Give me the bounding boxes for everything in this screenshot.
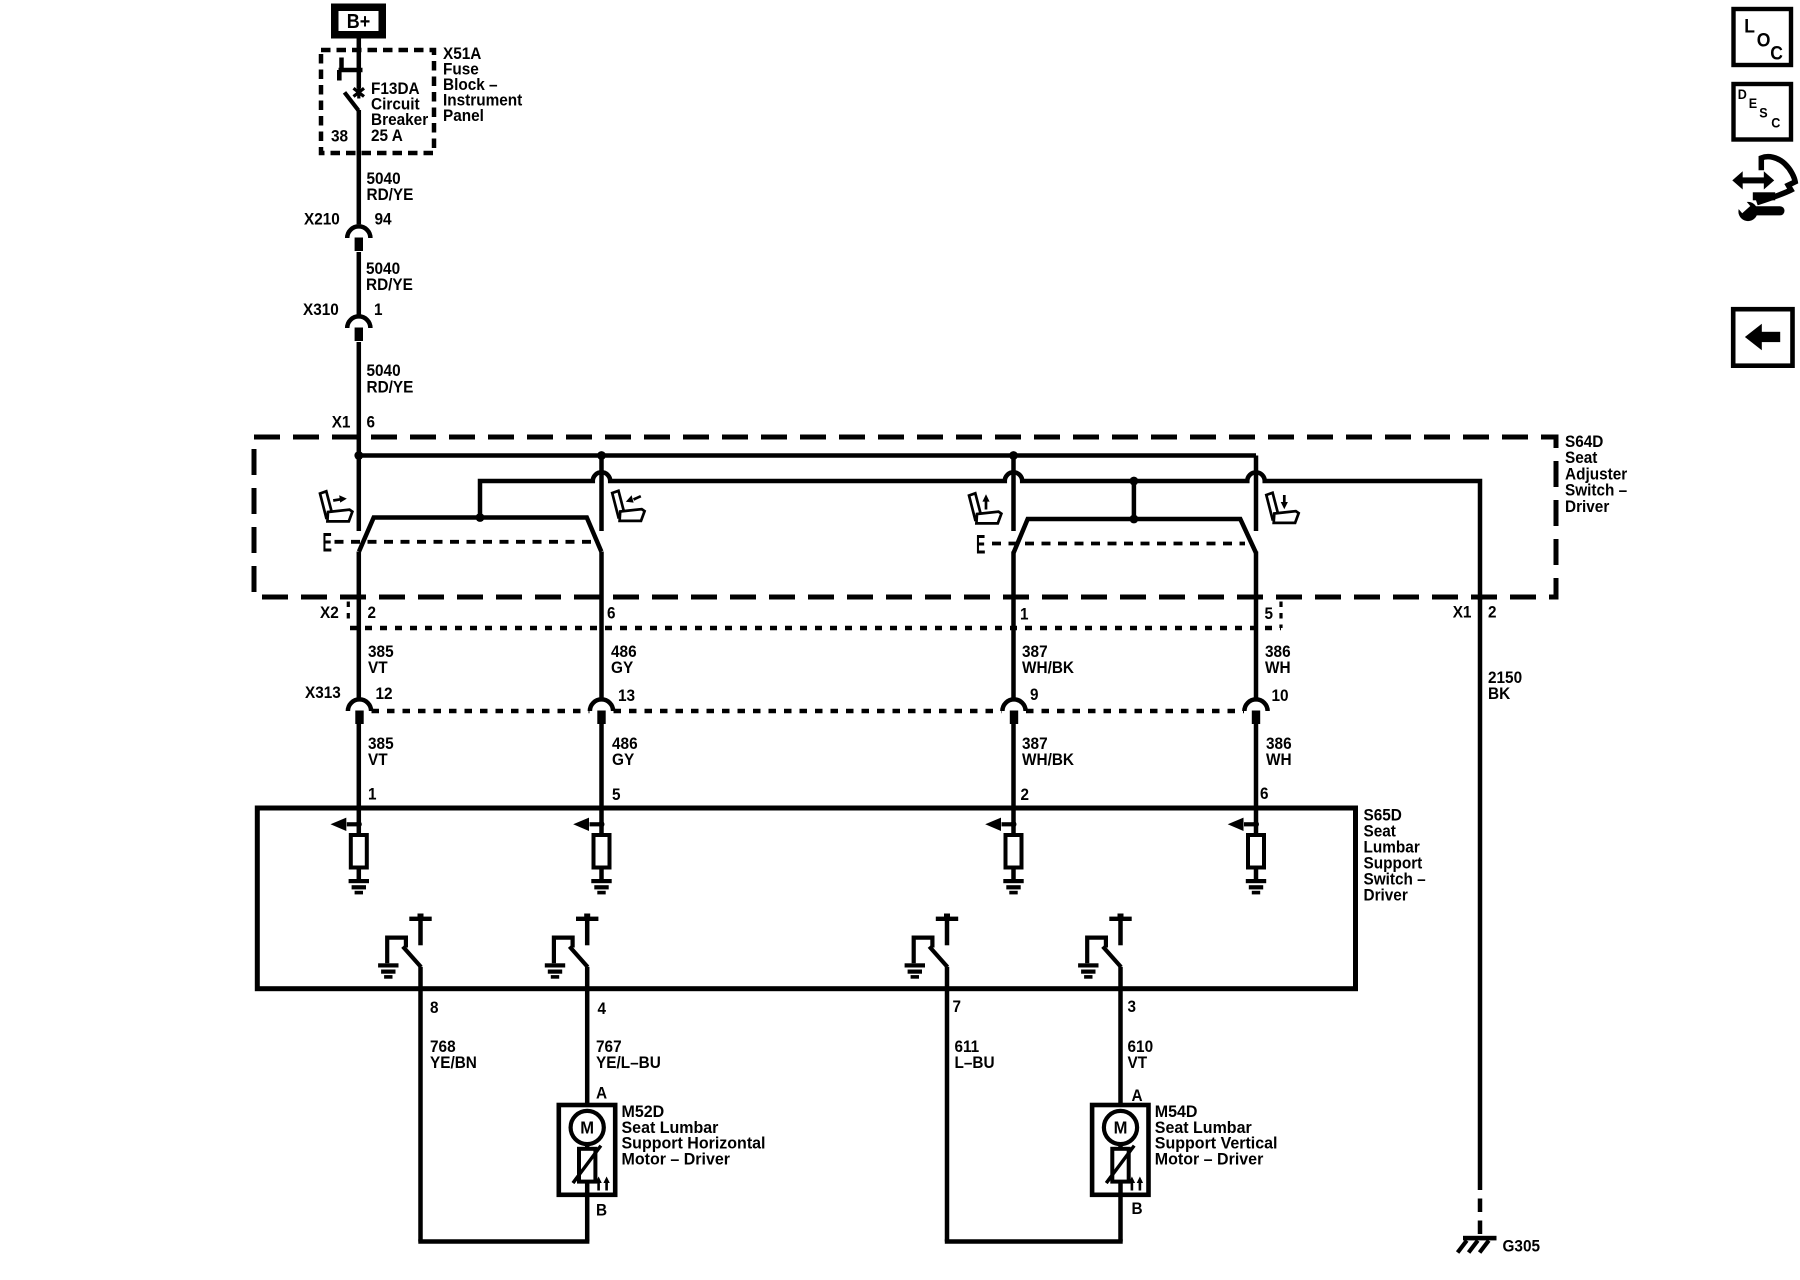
svg-text:6: 6 bbox=[367, 413, 376, 431]
svg-text:25 A: 25 A bbox=[371, 127, 403, 145]
in-line connector X313 pin 12 bbox=[348, 699, 371, 711]
battery B+ box bbox=[331, 4, 386, 39]
LOC button bbox=[1734, 9, 1792, 65]
svg-text:Motor – Driver: Motor – Driver bbox=[622, 1151, 731, 1169]
svg-text:3: 3 bbox=[1128, 998, 1137, 1016]
wire ground bus inside S64D (hops over verticals) bbox=[480, 472, 1480, 600]
svg-text:GY: GY bbox=[611, 659, 633, 677]
DESC button bbox=[1734, 84, 1792, 140]
in-line connector X313 pin 9 bbox=[1002, 699, 1025, 711]
potentiometer feedback branch 4 bbox=[1244, 822, 1256, 826]
svg-text:4: 4 bbox=[598, 1000, 607, 1018]
svg-text:6: 6 bbox=[607, 604, 616, 622]
svg-text:X2: X2 bbox=[320, 604, 339, 622]
svg-text:94: 94 bbox=[375, 210, 393, 228]
wire pin 7 down bbox=[945, 989, 950, 1242]
svg-text:2: 2 bbox=[1021, 786, 1030, 804]
svg-text:1: 1 bbox=[374, 301, 383, 319]
momentary switch 1 in S65D bbox=[418, 914, 424, 918]
wire M54D B down bbox=[1118, 1195, 1123, 1242]
resistor branch 2 bbox=[594, 835, 610, 868]
svg-text:M: M bbox=[1114, 1118, 1128, 1138]
wire switch 4 input bbox=[1254, 456, 1259, 532]
svg-text:YE/BN: YE/BN bbox=[430, 1054, 477, 1072]
fuse block X51A dashed box bbox=[321, 50, 434, 153]
svg-text:1: 1 bbox=[368, 785, 377, 803]
svg-text:1: 1 bbox=[1020, 605, 1029, 623]
junction bbox=[597, 451, 606, 460]
svg-text:A: A bbox=[596, 1084, 607, 1102]
ground switch 3 bbox=[905, 963, 925, 967]
svg-text:X1: X1 bbox=[332, 413, 351, 431]
potentiometer feedback branch 2 bbox=[590, 822, 602, 826]
svg-text:WH: WH bbox=[1266, 751, 1292, 769]
back navigation button bbox=[1733, 309, 1792, 366]
svg-text:GY: GY bbox=[612, 751, 634, 769]
wire return loop left bbox=[418, 1239, 589, 1244]
svg-text:38: 38 bbox=[331, 127, 348, 145]
svg-text:L–BU: L–BU bbox=[955, 1054, 995, 1072]
svg-text:Switch –: Switch – bbox=[1565, 482, 1627, 500]
motor M52D Seat Lumbar Support Horizontal bbox=[559, 1105, 615, 1195]
svg-text:WH/BK: WH/BK bbox=[1022, 659, 1074, 677]
circuit breaker F13DA bbox=[339, 68, 363, 73]
svg-text:9: 9 bbox=[1030, 686, 1039, 704]
seat icon switch 3 (lumbar up) bbox=[969, 493, 1001, 523]
wire pin13 to S65D pin5 bbox=[599, 724, 604, 835]
junction bus 2 bbox=[1130, 477, 1139, 486]
svg-text:S: S bbox=[1759, 105, 1767, 121]
wrench bbox=[1738, 202, 1757, 221]
wire B+ to circuit breaker bbox=[357, 39, 362, 69]
S65D Seat Lumbar Support Switch box bbox=[257, 808, 1355, 989]
svg-text:YE/L–BU: YE/L–BU bbox=[596, 1054, 661, 1072]
wire switch2 out pin 6 bbox=[599, 552, 604, 700]
wire pin 4 to motor M52D A bbox=[585, 989, 590, 1105]
svg-text:VT: VT bbox=[368, 659, 388, 677]
in-line connector X310 pin 1 bbox=[347, 316, 370, 328]
svg-text:12: 12 bbox=[376, 685, 393, 703]
X2 bracket right bbox=[1279, 602, 1282, 629]
svg-text:5: 5 bbox=[1265, 605, 1274, 623]
junction bar 2 tee bbox=[1130, 515, 1139, 524]
momentary switch 4 in S65D bbox=[1118, 914, 1124, 918]
in-line connector X210 pin 94 bbox=[347, 226, 370, 238]
wire M52D B down bbox=[585, 1195, 590, 1242]
svg-text:E: E bbox=[323, 527, 332, 557]
wire switch 3 input bbox=[1011, 456, 1016, 532]
wire X210 to X310 bbox=[357, 252, 362, 317]
arrow right bbox=[339, 495, 347, 502]
resistor branch 4 bbox=[1248, 835, 1264, 868]
svg-text:S64D: S64D bbox=[1565, 433, 1603, 451]
wire pin12 to S65D pin1 bbox=[357, 724, 362, 835]
E detent dashed line right bbox=[992, 542, 1245, 546]
wire bus2 tee to bar 2 bbox=[1132, 481, 1137, 519]
svg-text:BK: BK bbox=[1488, 685, 1510, 703]
momentary switch 3 in S65D bbox=[944, 914, 950, 918]
switch bar S64D left pair bbox=[359, 518, 601, 552]
svg-text:B+: B+ bbox=[347, 11, 371, 33]
wire breaker to X210 bbox=[357, 110, 362, 224]
X2 bracket left bbox=[347, 602, 350, 624]
svg-text:Driver: Driver bbox=[1565, 498, 1610, 516]
seat icon switch 4 (lumbar down) bbox=[1266, 493, 1298, 523]
wire 2150 BK dashed to ground bbox=[1478, 1177, 1483, 1236]
svg-text:13: 13 bbox=[618, 687, 635, 705]
svg-text:B: B bbox=[596, 1201, 607, 1219]
ground switch 1 bbox=[378, 963, 398, 967]
svg-text:X210: X210 bbox=[304, 210, 340, 228]
wire return loop right bbox=[945, 1239, 1123, 1244]
svg-text:B: B bbox=[1132, 1200, 1143, 1218]
svg-text:C: C bbox=[1771, 115, 1780, 131]
ground branch 3 bbox=[1003, 879, 1023, 883]
svg-text:X313: X313 bbox=[305, 684, 341, 702]
wire switch4 out pin 5 bbox=[1254, 552, 1259, 700]
X313 connector dashed line bbox=[372, 709, 590, 714]
potentiometer feedback branch 1 bbox=[347, 822, 359, 826]
svg-text:X310: X310 bbox=[303, 301, 339, 319]
svg-text:5: 5 bbox=[612, 786, 621, 804]
svg-text:Seat: Seat bbox=[1565, 449, 1598, 467]
wire switch 2 input bbox=[599, 456, 604, 532]
svg-text:O: O bbox=[1757, 30, 1771, 52]
wire pin10 to S65D pin6 bbox=[1254, 724, 1259, 835]
svg-text:E: E bbox=[976, 529, 985, 559]
svg-text:C: C bbox=[1770, 43, 1783, 65]
X2 connector dashed line bbox=[350, 626, 1281, 631]
svg-text:L: L bbox=[1744, 16, 1755, 38]
switch bar S64D right pair bbox=[1014, 519, 1256, 553]
E detent dashed line left bbox=[335, 540, 592, 544]
svg-text:10: 10 bbox=[1272, 687, 1289, 705]
in-line connector X313 pin 10 bbox=[1244, 699, 1267, 711]
seat icon switch 2 (lumbar rearward) bbox=[612, 491, 644, 521]
arrow left bbox=[626, 495, 634, 502]
svg-text:D: D bbox=[1738, 86, 1747, 102]
junction bbox=[354, 451, 363, 460]
ground switch 2 bbox=[545, 963, 565, 967]
svg-text:WH: WH bbox=[1265, 659, 1291, 677]
svg-text:Panel: Panel bbox=[443, 107, 484, 125]
svg-text:6: 6 bbox=[1260, 785, 1269, 803]
svg-text:7: 7 bbox=[953, 998, 962, 1016]
svg-text:Adjuster: Adjuster bbox=[1565, 465, 1628, 483]
arrow down bbox=[1281, 502, 1288, 509]
momentary switch 2 in S65D bbox=[584, 914, 590, 918]
wire pin 8 down bbox=[418, 989, 423, 1242]
svg-text:VT: VT bbox=[1128, 1054, 1148, 1072]
svg-text:X1: X1 bbox=[1453, 603, 1472, 621]
junction bbox=[1009, 451, 1018, 460]
wire pin 3 to motor M54D A bbox=[1118, 989, 1123, 1105]
ground G305 bbox=[1463, 1236, 1497, 1241]
ground switch 4 bbox=[1078, 963, 1098, 967]
seat icon switch 1 (lumbar forward) bbox=[320, 491, 352, 521]
S64D Seat Adjuster Switch box bbox=[254, 437, 1556, 597]
wire switch3 out pin 1 bbox=[1011, 552, 1016, 700]
svg-text:Motor – Driver: Motor – Driver bbox=[1155, 1151, 1264, 1169]
svg-text:2: 2 bbox=[368, 604, 377, 622]
svg-text:M: M bbox=[580, 1118, 594, 1138]
service/turn-over vehicle icon bbox=[1741, 177, 1765, 183]
svg-text:G305: G305 bbox=[1503, 1237, 1541, 1255]
wire X310 to S64D switch 1 bbox=[357, 342, 362, 531]
wire bus B+ inside S64D bbox=[359, 453, 1256, 458]
svg-text:8: 8 bbox=[430, 999, 439, 1017]
wire pin9 to S65D pin2 bbox=[1011, 724, 1016, 835]
ground branch 2 bbox=[591, 879, 611, 883]
svg-text:RD/YE: RD/YE bbox=[367, 186, 414, 204]
in-line connector X313 pin 13 bbox=[590, 699, 613, 711]
svg-text:Driver: Driver bbox=[1364, 886, 1409, 904]
arrow up bbox=[982, 494, 989, 501]
ground branch 4 bbox=[1246, 879, 1266, 883]
wire 2150 BK bbox=[1478, 598, 1483, 1177]
svg-text:RD/YE: RD/YE bbox=[367, 378, 414, 396]
motor M54D Seat Lumbar Support Vertical bbox=[1092, 1105, 1148, 1195]
potentiometer feedback branch 3 bbox=[1002, 822, 1014, 826]
svg-text:5040: 5040 bbox=[367, 362, 401, 380]
junction bar 1 tee bbox=[476, 513, 485, 522]
svg-text:RD/YE: RD/YE bbox=[366, 276, 413, 294]
svg-text:WH/BK: WH/BK bbox=[1022, 751, 1074, 769]
svg-text:E: E bbox=[1749, 95, 1757, 111]
svg-text:A: A bbox=[1132, 1087, 1143, 1105]
wire switch1 out pin 2 bbox=[357, 552, 362, 700]
resistor branch 3 bbox=[1006, 835, 1022, 868]
svg-text:VT: VT bbox=[368, 751, 388, 769]
ground branch 1 bbox=[349, 879, 369, 883]
svg-text:2: 2 bbox=[1488, 603, 1497, 621]
resistor branch 1 bbox=[351, 835, 367, 868]
